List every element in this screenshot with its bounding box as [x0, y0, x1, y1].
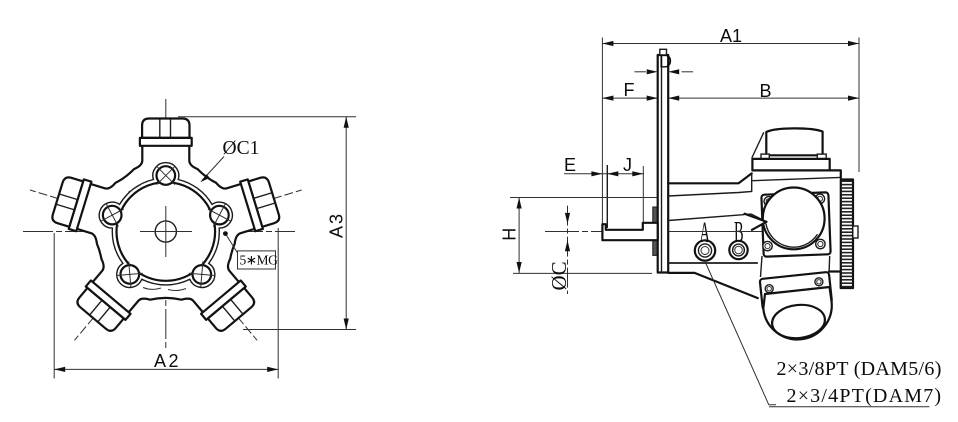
- center line across housing: [669, 231, 758, 233]
- svg-text:B: B: [760, 81, 772, 101]
- dimension H witness bottom: [513, 272, 652, 274]
- leader line from port A to text: [705, 261, 776, 405]
- witness line x=643 (J right / shaft shoulder): [642, 166, 644, 222]
- front housing inner step line: [668, 173, 752, 196]
- mounting bolt hole upper-right: [208, 204, 231, 227]
- flange inner edge line: [661, 55, 663, 273]
- cylinder head lower-left: [73, 281, 130, 335]
- boss inner chamfer arc: [766, 224, 818, 248]
- horizontal center line: [23, 231, 295, 233]
- wedge edge of housing over plate: [745, 214, 767, 230]
- plate corner bolt top-left: [764, 197, 773, 206]
- svg-text:A3: A3: [327, 212, 347, 238]
- mounting flange plate: [658, 55, 669, 273]
- svg-text:A1: A1: [720, 26, 742, 46]
- surface tick marks bottom: [143, 288, 161, 290]
- svg-text:D: D: [659, 52, 672, 72]
- svg-text:5∗MG: 5∗MG: [240, 253, 279, 268]
- svg-text:2×3/4PT(DAM7): 2×3/4PT(DAM7): [787, 385, 943, 407]
- witness line x=602 (A1/F/E): [601, 38, 603, 225]
- dimension A2 witness line left: [53, 233, 55, 379]
- motor body outline: [75, 144, 257, 315]
- cylinder head upper-right: [240, 174, 281, 232]
- svg-text:ØC: ØC: [547, 261, 571, 290]
- horizontal center line of shaft: [545, 231, 762, 233]
- plate-to-flange left connector: [761, 256, 763, 277]
- witness line x=859 (A1/B): [858, 38, 860, 173]
- flange top cap: [660, 49, 667, 55]
- valve cover strut line: [752, 132, 764, 158]
- front housing block: [668, 173, 758, 298]
- svg-text:J: J: [623, 155, 632, 175]
- dimension E/J line: [564, 173, 644, 175]
- leader line for ØC1: [202, 157, 224, 181]
- dimension H line: [518, 198, 520, 274]
- housing inner line at y263 redrawn: [668, 262, 758, 264]
- svg-text:2×3/8PT (DAM5/6): 2×3/8PT (DAM5/6): [777, 358, 942, 380]
- front housing lower inner line: [668, 262, 757, 264]
- cylinder head lower-right: [201, 281, 258, 335]
- dimension H witness top: [510, 197, 657, 199]
- small tab on ribbed cover: [853, 226, 858, 238]
- cylinder head top: [140, 119, 192, 146]
- dimension A3 witness line top: [178, 116, 356, 118]
- bottom cylinder barrel: [763, 287, 831, 339]
- front housing inner slant line: [668, 214, 766, 230]
- vertical center line: [165, 99, 167, 348]
- scalloped flange gasket outline: [99, 163, 232, 288]
- plate corner bolt top-right: [815, 194, 824, 203]
- ribbed end cover strip: [841, 180, 853, 289]
- radial center line 163 deg: [30, 190, 149, 226]
- dome right foot: [817, 154, 826, 159]
- svg-text:ØC1: ØC1: [223, 138, 260, 159]
- underline of port text: [769, 406, 929, 408]
- dimension ØC line vertical with outside arrows: [567, 206, 569, 294]
- bottom cylinder cap ellipse: [770, 302, 826, 340]
- mounting bolt hole lower-right: [189, 261, 215, 287]
- witness line thick at shaft groove x=607: [606, 165, 608, 228]
- dome left foot: [761, 154, 769, 159]
- dimension B line: [668, 97, 859, 99]
- svg-text:B: B: [734, 216, 744, 249]
- bottom cylinder flange: [760, 272, 832, 310]
- port B plug: [729, 241, 747, 259]
- valve housing band: [752, 159, 829, 171]
- svg-text:A2: A2: [154, 351, 181, 371]
- radial center line 230 deg: [75, 245, 155, 340]
- svg-text:E: E: [564, 155, 576, 175]
- dimension A1 line: [602, 43, 859, 45]
- dimension A3 line: [345, 117, 347, 330]
- bottom cylinder flange bolt right: [815, 278, 823, 286]
- svg-text:H: H: [500, 228, 520, 241]
- dimension A3 witness line bottom: [243, 329, 356, 331]
- surface tick mark upper-left: [128, 185, 140, 193]
- svg-text:F: F: [624, 80, 635, 100]
- radial center line 17 deg: [183, 190, 302, 226]
- mounting bolt hole top: [157, 166, 176, 185]
- dimension F line: [602, 97, 657, 99]
- valve cover dome: [766, 128, 822, 155]
- plate corner bolt bottom-left: [763, 241, 772, 250]
- output shaft: [602, 223, 657, 240]
- port plate on rear face: [761, 192, 830, 257]
- svg-text:A: A: [700, 217, 710, 250]
- bottom cylinder flange bolt left: [765, 285, 773, 293]
- dimension A2 witness line right: [277, 228, 279, 379]
- dimension D line with outside arrows: [634, 71, 646, 73]
- plate-to-flange right connector: [828, 256, 831, 271]
- mounting bolt hole upper-left: [101, 204, 124, 227]
- mounting flange pilot boss (hatched): [653, 207, 660, 255]
- port A plug: [695, 240, 715, 260]
- leader line for 5*MG with dot: [226, 234, 238, 253]
- callout box 5*MG: [238, 251, 276, 269]
- mounting bolt hole lower-left: [117, 261, 143, 287]
- radial center line 310 deg: [177, 245, 257, 340]
- rear housing top edge: [752, 177, 840, 180]
- dimension A2 line: [54, 368, 278, 370]
- shaft hole crosshair: [140, 231, 192, 233]
- pilot circle: [117, 182, 216, 281]
- cylinder head upper-left: [50, 174, 91, 232]
- plate corner bolt bottom-right: [816, 239, 825, 248]
- shaft hole: [155, 221, 176, 242]
- distributor boss circle: [763, 188, 825, 250]
- rear housing block: [829, 170, 841, 288]
